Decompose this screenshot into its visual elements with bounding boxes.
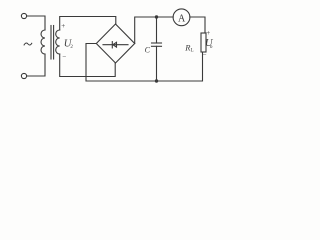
bridge rectifier: [96, 24, 134, 63]
junction dot capacitor bottom: [155, 79, 158, 82]
wire bridge left vertex (DC-) down to bottom rail: [86, 44, 203, 82]
wire input top: [27, 16, 45, 30]
wire secondary top to bridge top vertex: [60, 17, 116, 31]
AC source label ~: [24, 43, 32, 46]
svg-text:2: 2: [70, 45, 73, 50]
svg-text:+: +: [61, 22, 65, 30]
ammeter A: [173, 9, 190, 26]
diode inside bridge: [103, 42, 128, 48]
wire bridge right vertex (DC+) up to top rail: [135, 17, 173, 44]
svg-text:C: C: [145, 46, 151, 55]
transformer primary winding: [41, 30, 45, 54]
terminal (input top): [21, 13, 26, 18]
svg-text:A: A: [178, 14, 186, 25]
terminal (input bottom): [21, 73, 26, 78]
resistor RL: [201, 33, 206, 52]
svg-text:−: −: [62, 53, 66, 61]
transformer secondary winding: [56, 30, 60, 54]
transformer core: [51, 26, 54, 60]
junction dot capacitor top: [155, 15, 158, 18]
svg-text:+: +: [206, 29, 210, 37]
svg-text:o: o: [210, 44, 213, 50]
wire secondary bottom to bridge bottom vertex: [60, 54, 115, 77]
capacitor C: [152, 17, 162, 81]
svg-text:−: −: [203, 50, 207, 58]
wire ammeter to load top: [190, 17, 205, 33]
svg-text:L: L: [191, 49, 194, 54]
wire input bottom: [27, 54, 45, 76]
